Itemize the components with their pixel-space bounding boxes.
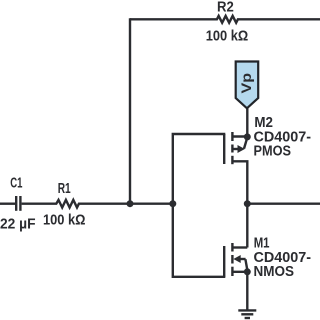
svg-text:C1: C1	[10, 175, 22, 191]
svg-text:R1: R1	[58, 181, 71, 197]
svg-text:NMOS: NMOS	[254, 264, 295, 280]
svg-text:100 kΩ: 100 kΩ	[206, 29, 249, 45]
svg-text:100 kΩ: 100 kΩ	[43, 212, 86, 228]
svg-text:R2: R2	[217, 0, 234, 16]
svg-text:22 µF: 22 µF	[0, 217, 36, 233]
svg-text:PMOS: PMOS	[254, 143, 292, 159]
svg-text:M1: M1	[254, 235, 270, 251]
svg-text:Vp: Vp	[238, 73, 254, 94]
